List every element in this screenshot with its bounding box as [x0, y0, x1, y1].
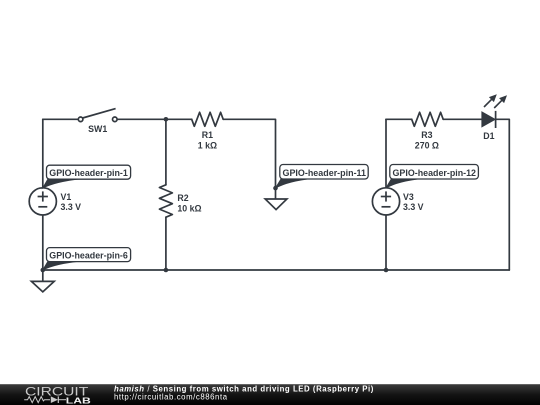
wire V1 bottom: [42, 215, 44, 270]
callout GPIO-header-pin-1: [43, 165, 131, 188]
svg-text:R1: R1: [202, 130, 213, 140]
wire R3 to D1: [443, 118, 482, 120]
svg-text:3.3 V: 3.3 V: [403, 202, 424, 212]
svg-text:SW1: SW1: [88, 124, 107, 134]
svg-text:V1: V1: [61, 192, 72, 202]
logo resistor zigzag: [24, 397, 50, 403]
ground (below V1): [31, 270, 54, 292]
svg-text:R3: R3: [421, 130, 432, 140]
callout GPIO-header-pin-11: [276, 165, 369, 189]
svg-text:10 kΩ: 10 kΩ: [177, 203, 201, 213]
wire D1 to right corner down: [496, 119, 510, 270]
svg-text:GPIO-header-pin-1: GPIO-header-pin-1: [49, 168, 128, 179]
svg-text:D1: D1: [483, 131, 494, 141]
wire node A to R1: [166, 118, 192, 120]
svg-text:GPIO-header-pin-11: GPIO-header-pin-11: [283, 168, 367, 179]
wire V3 top vertical: [385, 119, 387, 188]
voltage source V3: [372, 188, 399, 215]
callout GPIO-header-pin-6: [43, 248, 131, 270]
svg-text:LAB: LAB: [66, 396, 91, 405]
node junction dot R2 bottom: [164, 268, 169, 273]
wire top-left horizontal V1 to SW1: [43, 118, 79, 120]
wire SW1 to node A: [117, 118, 166, 120]
node junction dot V3 bottom: [384, 268, 389, 273]
wire left vertical V1 top: [42, 119, 44, 188]
svg-text:R2: R2: [177, 193, 188, 203]
switch SW1: [78, 109, 117, 122]
voltage source V1: [29, 188, 56, 215]
wire V3 to R3: [386, 118, 412, 120]
node junction dot R1-ground: [273, 186, 278, 191]
callout GPIO-header-pin-12: [386, 165, 478, 189]
wire node A down to R2: [165, 119, 167, 185]
svg-text:V3: V3: [403, 192, 414, 202]
wire V3 bottom: [385, 215, 387, 270]
svg-text:http://circuitlab.com/c886nta: http://circuitlab.com/c886nta: [114, 393, 228, 402]
resistor R3: [412, 112, 444, 126]
svg-text:GPIO-header-pin-12: GPIO-header-pin-12: [393, 168, 477, 179]
resistor R1: [192, 112, 224, 126]
ground (below R1 output node): [265, 188, 287, 210]
svg-text:1 kΩ: 1 kΩ: [198, 141, 217, 151]
wire R2 bottom: [165, 217, 167, 270]
svg-text:3.3 V: 3.3 V: [61, 202, 82, 212]
wire bottom horizontal: [43, 269, 510, 271]
LED D1: [482, 94, 507, 128]
node A junction dot: [164, 117, 169, 122]
logo diode: [51, 396, 58, 403]
resistor R2: [159, 185, 172, 217]
svg-text:270 Ω: 270 Ω: [415, 141, 439, 151]
wire R1 to corner: [223, 119, 275, 188]
node junction dot V1 bottom: [41, 268, 46, 273]
svg-text:GPIO-header-pin-6: GPIO-header-pin-6: [49, 251, 128, 262]
